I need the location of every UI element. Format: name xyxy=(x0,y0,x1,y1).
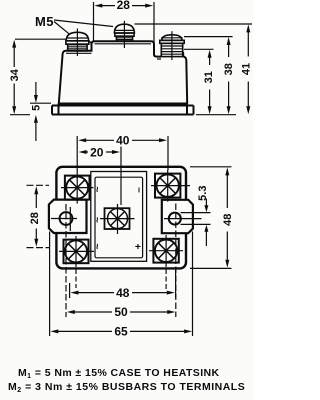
terminal bottom-left (screw head) xyxy=(59,236,94,267)
right bolt centerline xyxy=(171,31,173,60)
torque note line 2 xyxy=(8,381,245,394)
svg-text:41: 41 xyxy=(241,63,253,75)
left mounting lug xyxy=(49,200,87,233)
right mounting lug xyxy=(162,200,193,233)
svg-text:28: 28 xyxy=(117,0,131,12)
dimension 5.3 (right slot width) xyxy=(205,199,207,247)
svg-text:20: 20 xyxy=(90,145,104,159)
svg-text:M5: M5 xyxy=(35,14,54,29)
dimension 48 (bottom) xyxy=(77,292,168,294)
dimension 28 (top, platform width) xyxy=(94,2,155,43)
dimension 20 (plan top) xyxy=(120,147,122,206)
svg-text:~: ~ xyxy=(93,217,104,223)
left bolt centerline xyxy=(76,29,78,57)
svg-text:65: 65 xyxy=(114,325,128,339)
inner lid rectangle (double line) xyxy=(91,172,147,262)
svg-text:28: 28 xyxy=(29,212,41,224)
dimension 48 (plan right, body depth) xyxy=(190,167,232,269)
dimension 38 (right, to outer bolt top) xyxy=(184,36,233,38)
dimension 50 (bottom) xyxy=(74,311,169,313)
middle bolt (terminal screw) xyxy=(114,24,134,41)
polarity markings xyxy=(93,186,145,249)
left bolt (terminal screw) xyxy=(66,32,89,51)
svg-text:38: 38 xyxy=(223,63,235,75)
svg-text:–: – xyxy=(134,187,145,193)
torque note line 1 xyxy=(18,367,220,380)
right lug slot edge lines (5.3) xyxy=(181,213,211,225)
left lug hole xyxy=(60,212,73,225)
svg-text:48: 48 xyxy=(116,286,130,300)
svg-text:~: ~ xyxy=(93,186,104,192)
right lug hole xyxy=(169,213,181,225)
common bottom extension line xyxy=(196,114,236,116)
terminal top-right (screw head) xyxy=(151,170,190,202)
terminal top-left (screw head) xyxy=(61,172,93,204)
svg-text:34: 34 xyxy=(9,68,21,81)
svg-text:50: 50 xyxy=(114,305,128,319)
dimension 34 (left) xyxy=(10,39,66,115)
M5 leader lines xyxy=(54,20,113,34)
svg-text:5.3: 5.3 xyxy=(197,186,209,201)
dimension 31 (right, body height) xyxy=(184,48,214,50)
small chamfer right of left bolt xyxy=(89,40,92,44)
svg-text:5: 5 xyxy=(31,105,43,111)
dimension 28 (plan left) xyxy=(27,185,50,247)
svg-text:31: 31 xyxy=(203,71,215,83)
svg-text:40: 40 xyxy=(116,134,130,148)
right bolt (terminal screw) xyxy=(160,35,184,57)
dimension 5 (base plate thickness) xyxy=(30,102,51,104)
body outline xyxy=(59,41,187,103)
top surface second lines xyxy=(66,44,161,59)
dimension 41 (right, overall height) xyxy=(135,23,253,25)
bottom extension lines xyxy=(49,232,51,337)
center terminal (gate) xyxy=(100,204,135,234)
middle bolt centerline xyxy=(123,21,125,48)
dimension 40 (plan top) xyxy=(77,136,168,172)
svg-text:48: 48 xyxy=(222,214,234,226)
terminal bottom-right (screw head) xyxy=(149,235,183,267)
base plate xyxy=(52,104,194,115)
body outline xyxy=(56,167,186,269)
dimension 65 (bottom) xyxy=(57,330,186,332)
svg-text:+: + xyxy=(134,243,145,249)
svg-text:~: ~ xyxy=(93,243,104,249)
